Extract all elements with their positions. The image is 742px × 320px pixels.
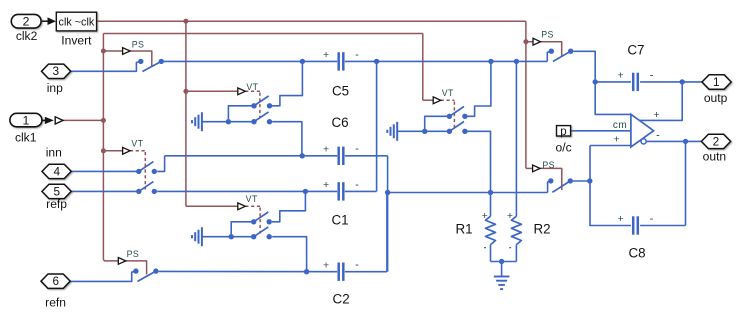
- svg-text:clk1: clk1: [15, 131, 37, 145]
- svg-text:C5: C5: [332, 83, 349, 98]
- svg-text:-: -: [355, 143, 359, 155]
- svg-text:PS: PS: [542, 160, 555, 170]
- svg-text:-: -: [355, 179, 359, 191]
- svg-text:+: +: [323, 179, 329, 191]
- svg-text:VT: VT: [246, 82, 258, 92]
- svg-text:PS: PS: [127, 249, 140, 259]
- svg-text:outp: outp: [704, 91, 728, 105]
- svg-text:+: +: [618, 213, 624, 225]
- svg-text:refp: refp: [46, 197, 67, 211]
- svg-text:-: -: [355, 259, 359, 271]
- svg-text:refn: refn: [45, 295, 66, 309]
- svg-text:2: 2: [23, 14, 30, 28]
- svg-text:PS: PS: [132, 40, 145, 50]
- svg-text:R2: R2: [533, 221, 550, 236]
- svg-text:2: 2: [713, 134, 720, 148]
- svg-text:R1: R1: [455, 221, 472, 236]
- svg-text:+: +: [323, 259, 329, 271]
- svg-text:C7: C7: [627, 42, 644, 57]
- svg-text:VT: VT: [131, 139, 143, 149]
- svg-text:clk ~clk: clk ~clk: [59, 17, 95, 29]
- svg-text:-: -: [650, 213, 654, 225]
- svg-text:+: +: [323, 144, 329, 156]
- svg-text:C6: C6: [331, 115, 348, 130]
- svg-text:+: +: [613, 134, 619, 146]
- svg-text:cm: cm: [613, 120, 627, 131]
- svg-text:6: 6: [53, 274, 60, 288]
- svg-text:PS: PS: [541, 30, 554, 40]
- svg-text:+: +: [507, 210, 513, 222]
- svg-text:3: 3: [53, 64, 60, 78]
- svg-text:inn: inn: [46, 146, 62, 160]
- svg-text:1: 1: [713, 75, 720, 89]
- svg-text:C1: C1: [331, 212, 348, 227]
- svg-text:p: p: [560, 126, 566, 138]
- svg-text:outn: outn: [703, 150, 727, 164]
- svg-text:-: -: [355, 49, 359, 61]
- svg-text:4: 4: [54, 164, 61, 178]
- svg-text:VT: VT: [246, 194, 258, 204]
- svg-text:inp: inp: [47, 81, 63, 95]
- svg-text:+: +: [323, 49, 329, 61]
- svg-text:C8: C8: [628, 246, 645, 261]
- svg-text:C2: C2: [333, 292, 350, 307]
- svg-text:-: -: [656, 130, 660, 142]
- svg-text:+: +: [618, 70, 624, 82]
- svg-text:-: -: [650, 69, 654, 81]
- svg-text:clk2: clk2: [16, 29, 38, 43]
- svg-text:+: +: [482, 210, 488, 222]
- svg-text:o/c: o/c: [556, 140, 572, 154]
- svg-text:VT: VT: [442, 88, 454, 98]
- svg-text:+: +: [653, 109, 659, 121]
- svg-text:1: 1: [22, 113, 29, 127]
- svg-text:Invert: Invert: [61, 34, 92, 48]
